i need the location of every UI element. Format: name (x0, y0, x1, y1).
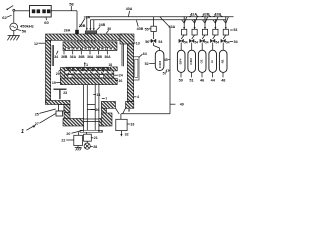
label 49 (170, 103, 184, 107)
matching box 60 (30, 6, 52, 18)
svg-text:36A: 36A (87, 55, 94, 59)
label 36B (3) (96, 51, 103, 59)
svg-text:19: 19 (52, 81, 56, 85)
label 42A (189, 12, 198, 16)
label 52 (145, 62, 155, 66)
svg-text:16: 16 (118, 79, 122, 83)
svg-text:56: 56 (22, 29, 27, 34)
svg-text:40B: 40B (137, 27, 144, 31)
svg-text:55: 55 (145, 27, 149, 31)
svg-text:54: 54 (184, 41, 188, 45)
svg-text:24B: 24B (99, 23, 106, 27)
chamber lid right block (120, 34, 134, 44)
svg-text:C4F8: C4F8 (189, 58, 193, 65)
svg-text:26A: 26A (64, 29, 71, 33)
RF feed block on lid (75, 30, 79, 34)
label 58 (69, 2, 74, 11)
label 45 (164, 58, 170, 62)
labels 54 row (184, 41, 230, 45)
label 36A (3) (104, 51, 111, 59)
svg-text:C4F8: C4F8 (158, 61, 162, 69)
label 56 (17, 29, 27, 34)
svg-text:1: 1 (21, 129, 24, 135)
label 47 (165, 69, 169, 73)
label 26 (35, 109, 56, 116)
svg-text:60: 60 (44, 20, 49, 25)
chamber lid (46, 34, 128, 40)
wire switch to box 60 (15, 10, 30, 12)
link shaft to box B (86, 132, 88, 134)
port block bottom left (59, 105, 65, 112)
svg-text:24: 24 (119, 74, 123, 78)
svg-text:22: 22 (61, 139, 65, 143)
label 36A (1) (70, 51, 77, 59)
branch 55 drop (153, 17, 155, 26)
ground under box 22 (75, 146, 82, 151)
label 9 (98, 129, 103, 133)
APC box 33 (116, 119, 127, 130)
stage body (62, 70, 114, 74)
focus ring (110, 67, 117, 71)
gas branch drops (182, 16, 229, 29)
gas inlet drop 1 (86, 17, 88, 31)
label 25 (91, 145, 98, 149)
svg-text:N2: N2 (221, 59, 225, 63)
chamber right wall (127, 44, 133, 101)
cylinder 51 (188, 43, 196, 73)
svg-text:54: 54 (205, 41, 209, 45)
svg-text:62: 62 (2, 15, 7, 20)
shaft flange (80, 130, 103, 132)
label 12 (34, 42, 45, 46)
figure number 1 (21, 125, 36, 135)
wire switch down to source (13, 11, 15, 23)
label 42B (1) (202, 12, 211, 16)
exhaust pipe down (120, 114, 122, 119)
svg-text:34: 34 (54, 55, 58, 59)
svg-text:29: 29 (56, 72, 60, 76)
label 53 (230, 28, 237, 32)
liner left wall (52, 45, 53, 66)
showerhead hanger posts (78, 40, 95, 42)
svg-text:36B: 36B (96, 55, 103, 59)
switch 62 (6, 6, 14, 12)
label 21 (92, 136, 98, 140)
svg-text:54: 54 (195, 41, 199, 45)
label 60 (44, 17, 49, 25)
cylinder number labels (179, 73, 226, 83)
label 8 (128, 107, 130, 113)
svg-text:12: 12 (34, 42, 38, 46)
svg-text:23: 23 (63, 91, 67, 95)
svg-text:1: 1 (86, 63, 88, 67)
label 14 (93, 93, 100, 97)
svg-text:30: 30 (107, 27, 111, 31)
cylinder 44 (209, 43, 217, 73)
svg-text:50: 50 (179, 78, 183, 82)
label 27 (35, 114, 56, 127)
label 40B (136, 20, 143, 31)
stage lower body (62, 74, 114, 78)
svg-text:26: 26 (95, 108, 99, 112)
stage bottom plate (60, 78, 117, 84)
svg-text:54: 54 (234, 40, 238, 44)
svg-text:54: 54 (216, 41, 220, 45)
svg-text:54: 54 (226, 41, 230, 45)
svg-text:45: 45 (164, 58, 168, 62)
svg-text:13: 13 (136, 42, 140, 46)
svg-text:28: 28 (93, 145, 97, 149)
label 40A (126, 7, 133, 16)
svg-text:52: 52 (145, 62, 149, 66)
label 22 (61, 139, 73, 143)
label 29 (56, 70, 61, 76)
label 36B (1) (61, 51, 68, 59)
cylinder 48 (219, 43, 227, 73)
svg-text:36B: 36B (78, 55, 85, 59)
svg-text:14: 14 (96, 93, 100, 97)
label 55 (145, 27, 151, 31)
svg-text:36A: 36A (70, 55, 77, 59)
label 19 (52, 81, 60, 85)
link shaft to box (77, 132, 79, 135)
label 24 (114, 74, 123, 78)
svg-text:43A: 43A (169, 25, 176, 29)
label 20A (80, 16, 91, 28)
label 26 (91, 108, 100, 112)
stage ESC layer (65, 68, 110, 71)
gas inlet drop 3 (93, 20, 95, 31)
cylinder 50 (177, 43, 185, 73)
svg-text:4: 4 (137, 95, 139, 99)
chamber bottom left floor (46, 101, 71, 105)
label 64 (139, 52, 147, 58)
chamber left wall (46, 40, 51, 103)
bottom right riser (102, 102, 107, 114)
svg-text:36A: 36A (104, 55, 111, 59)
exhaust funnel (116, 108, 126, 114)
svg-text:56: 56 (145, 40, 149, 44)
liner on right wall (122, 44, 123, 66)
box 21 (84, 134, 92, 141)
AC source 56 (10, 23, 18, 31)
svg-text:O2: O2 (200, 59, 204, 63)
wire 58 (51, 11, 77, 30)
svg-text:18: 18 (108, 63, 112, 67)
label 13 (134, 42, 140, 46)
bottom band right of shaft (99, 119, 105, 127)
svg-text:46: 46 (200, 79, 204, 83)
svg-text:20: 20 (66, 132, 70, 136)
svg-text:64: 64 (143, 52, 147, 56)
pipe valve to cylinder 52 (154, 43, 160, 51)
showerhead electrode (63, 42, 117, 51)
svg-text:33: 33 (130, 122, 134, 126)
gas manifold line 40A (87, 16, 234, 18)
svg-text:47: 47 (165, 69, 169, 73)
svg-text:9: 9 (101, 129, 103, 133)
label 56 (145, 40, 151, 44)
drive box 22 (74, 135, 83, 145)
svg-text:49: 49 (180, 103, 184, 107)
support shaft (84, 85, 99, 132)
gas feed block on lid (85, 31, 97, 34)
MFC boxes row (182, 29, 229, 35)
svg-text:40A: 40A (126, 7, 133, 11)
wire source to ground (13, 31, 15, 36)
svg-text:25: 25 (35, 112, 39, 116)
svg-text:32: 32 (125, 132, 129, 136)
pedestal left block (64, 105, 70, 113)
label 34 (54, 51, 58, 59)
svg-text:48: 48 (221, 79, 225, 83)
svg-text:53: 53 (233, 28, 237, 32)
gas inlet drop 2 (89, 20, 91, 31)
pump circle 25 (84, 141, 90, 149)
label 16 (115, 79, 122, 83)
svg-text:36B: 36B (61, 55, 68, 59)
label 41 (134, 95, 139, 99)
svg-text:8: 8 (128, 109, 130, 113)
label 20 (66, 130, 82, 135)
valve 56 (first branch) (151, 32, 156, 43)
wafer pointer 1 (84, 62, 88, 67)
MFC box 55 (151, 26, 156, 31)
chamber right floor (102, 102, 134, 109)
bottom band left of shaft (63, 119, 84, 127)
exhaust return line (121, 113, 170, 115)
stage left block (60, 67, 65, 78)
svg-text:51: 51 (189, 79, 193, 83)
svg-text:54: 54 (158, 40, 162, 44)
svg-text:58: 58 (69, 2, 74, 7)
bottom left riser (64, 113, 70, 121)
label 62 (2, 15, 11, 20)
svg-text:20B: 20B (79, 24, 86, 28)
label 42B (2) (213, 12, 222, 16)
gas cylinder 52 (155, 50, 164, 70)
svg-text:21: 21 (94, 136, 98, 140)
svg-text:7: 7 (105, 97, 107, 101)
svg-text:SiF4: SiF4 (179, 58, 183, 64)
label 54 right (230, 40, 238, 44)
window 64 on right wall (134, 57, 139, 80)
gas manifold line 40B (90, 19, 226, 21)
label 36A (2) (87, 51, 94, 59)
label 33 (127, 122, 134, 126)
cylinder 46 (198, 43, 206, 73)
valves row 54 (179, 35, 226, 43)
label 7 (102, 97, 107, 101)
exhaust arrow down (120, 131, 122, 137)
ground (7, 36, 19, 41)
bypass line 43A (160, 17, 170, 114)
lift pin tee 23 (54, 89, 67, 99)
label 36B (2) (78, 51, 85, 59)
